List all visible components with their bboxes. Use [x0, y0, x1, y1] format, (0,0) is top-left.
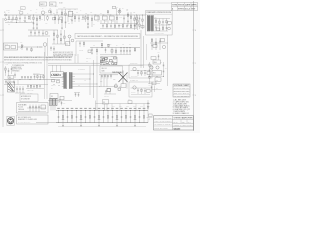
drops into U3 — [53, 65, 61, 72]
ps below box d1 — [153, 45, 157, 48]
wire y74 center — [99, 74, 118, 76]
cm cap a — [91, 48, 93, 55]
wire above ladder y103 — [96, 104, 151, 111]
ladder noise labels — [112, 105, 150, 107]
capacitor C3 — [50, 8, 52, 15]
ps chain c — [162, 19, 164, 32]
ps below box d2 — [161, 39, 165, 42]
title block — [154, 116, 194, 131]
revision table — [155, 3, 198, 11]
bus vertical x143 — [143, 36, 145, 68]
wire bus y79 — [4, 79, 60, 81]
zone tick left B — [2, 29, 4, 31]
rm transistor Q27 — [156, 66, 159, 69]
rm chain right — [163, 62, 165, 76]
svg-text:2.2K: 2.2K — [63, 7, 66, 9]
svg-text:POWER SUPPLY / PROTECTOR PC-22: POWER SUPPLY / PROTECTOR PC-2216 — [147, 12, 172, 14]
power entry box — [4, 43, 18, 50]
riser box mid — [103, 100, 109, 105]
wire secondary y22 — [5, 22, 34, 24]
resistor R10 chain — [61, 9, 63, 29]
svg-text:R102: R102 — [112, 105, 115, 107]
cap row t1 — [15, 86, 25, 93]
small box lower left — [50, 94, 58, 99]
resistor R4 — [28, 15, 30, 20]
svg-text:220K: 220K — [55, 6, 58, 8]
svg-text:R28: R28 — [126, 9, 128, 11]
ps below wire y42 — [150, 42, 168, 44]
wire y36 left — [28, 35, 50, 37]
res r70 — [60, 96, 64, 99]
connector CN3 dark — [50, 99, 61, 106]
resistor R9 — [58, 15, 60, 24]
second tier parts right — [100, 20, 136, 29]
svg-text:S3: S3 — [51, 96, 53, 98]
chain x61 — [60, 30, 62, 44]
ps below box chain c — [159, 38, 161, 50]
resistor chain R19 — [137, 15, 139, 30]
svg-text:W/ VTVM 20K OHM/V: W/ VTVM 20K OHM/V — [18, 122, 31, 124]
sheet border left — [2, 18, 4, 127]
wire y47 center — [90, 47, 140, 49]
svg-text:0.047: 0.047 — [119, 17, 122, 19]
tl extra noise — [5, 17, 33, 24]
ll parts col a — [5, 66, 7, 76]
svg-text:SIZE: SIZE — [182, 121, 185, 123]
label box TB1 — [8, 76, 14, 79]
rm box relay — [152, 71, 162, 76]
res r25 — [31, 47, 33, 52]
ps box lower — [157, 28, 160, 31]
notes heading line — [4, 56, 72, 59]
zone tick left D — [2, 94, 4, 96]
right riser parts — [147, 103, 149, 108]
chain x64 — [64, 30, 66, 44]
svg-text:C60 10/50 D12 R82: C60 10/50 D12 R82 — [155, 33, 165, 35]
cluster R16 R17 — [126, 10, 132, 26]
resistor R5 chain — [33, 15, 35, 30]
schematic box 1 — [17, 103, 49, 114]
svg-text:TP5 -24V TP6 0V: TP5 -24V TP6 0V — [174, 93, 190, 95]
resistor R1 — [8, 15, 10, 23]
rm upper parts — [151, 52, 160, 60]
svg-text:→2: →2 — [148, 119, 150, 121]
cap c25 — [26, 47, 28, 51]
svg-text:C90: C90 — [63, 103, 66, 105]
relay K1 box — [95, 14, 100, 20]
connector P2 dark bars — [147, 16, 153, 32]
IC designator box U3 — [51, 72, 64, 77]
input jack J1 — [4, 12, 7, 16]
wire y86 center — [99, 86, 118, 88]
transformer T1 — [8, 80, 15, 92]
resistor R11 chain — [65, 9, 67, 28]
svg-text:U1: U1 — [69, 10, 71, 12]
ladder ground rail faint — [58, 125, 146, 127]
svg-text:TP1: TP1 — [8, 24, 10, 26]
connector CN2 dark — [69, 73, 72, 89]
svg-text:R55 C47: R55 C47 — [51, 85, 56, 87]
caps above bus — [21, 76, 32, 80]
cm caps row — [120, 47, 131, 54]
wire secondary y23 right — [100, 23, 138, 25]
svg-text:C: C — [1, 62, 2, 64]
svg-text:RY1: RY1 — [97, 21, 100, 23]
resistor R13 — [78, 15, 80, 22]
relay K3 box — [110, 14, 115, 20]
riser x107 — [106, 104, 108, 111]
box center right — [121, 84, 126, 88]
amp text noise — [52, 69, 86, 87]
svg-text:DWG 204-1187: DWG 204-1187 — [155, 128, 168, 130]
rm chain left — [149, 62, 151, 84]
svg-text:TP: TP — [21, 8, 23, 10]
svg-text:D15: D15 — [156, 79, 159, 81]
vert x97 — [96, 56, 98, 111]
zone tick right C — [193, 62, 195, 64]
cm res c — [101, 43, 103, 48]
resistor R8 — [54, 15, 56, 24]
svg-text:C23: C23 — [133, 12, 135, 14]
drop wires to amp — [75, 54, 91, 63]
capacitor C4 — [82, 15, 84, 20]
ladder top bus — [56, 110, 148, 112]
vert x90 — [89, 66, 91, 95]
tb extra parts — [31, 6, 82, 20]
pre-box chains left — [136, 15, 144, 29]
resistor R6 chain — [36, 15, 38, 29]
svg-text:R132: R132 — [133, 105, 136, 107]
ps wire y31 — [154, 30, 168, 32]
zone tick right B — [193, 29, 195, 31]
transistor Q6 — [43, 43, 47, 56]
svg-text:Q22: Q22 — [113, 79, 116, 81]
ladder right riser — [147, 100, 149, 123]
svg-text:REVISION: REVISION — [178, 5, 184, 7]
ll parts col b — [8, 68, 10, 76]
ll col extra — [5, 63, 12, 75]
svg-text:R91 C71 D14: R91 C71 D14 — [131, 76, 138, 78]
svg-text:1K: 1K — [23, 20, 25, 22]
svg-text:100K: 100K — [49, 9, 52, 11]
wire x47 down2 — [46, 57, 48, 99]
wire x44 down — [44, 52, 46, 99]
input jack J2 — [5, 19, 17, 21]
svg-text:1.5K: 1.5K — [45, 23, 48, 25]
svg-text:R152: R152 — [147, 105, 150, 107]
wire upper y9 — [58, 8, 78, 10]
svg-text:B: B — [1, 30, 2, 32]
ps chain a — [155, 19, 157, 32]
dark part center — [107, 89, 111, 92]
svg-text:12P: 12P — [58, 102, 60, 104]
cap bank c21 — [30, 30, 32, 36]
junction dots y47 — [36, 46, 39, 49]
cap bank c24 — [42, 30, 44, 36]
subcircuit box power supply — [146, 11, 173, 36]
wire y47 left — [18, 46, 43, 48]
pin stubs right — [72, 74, 75, 87]
resistor R14 chain — [87, 15, 89, 29]
svg-text:Q21: Q21 — [100, 81, 103, 83]
svg-text:10-2: 10-2 — [185, 9, 190, 11]
parts note list — [173, 99, 190, 115]
cm res g — [115, 48, 117, 55]
wire x47 down — [47, 38, 49, 56]
info box left — [20, 94, 38, 102]
cluster Q2 Q3 — [116, 7, 125, 25]
cap c90 — [61, 101, 66, 106]
svg-text:MUTING CKT: MUTING CKT — [130, 63, 138, 65]
small parts left of chart — [151, 82, 162, 92]
ps below transistor — [162, 45, 165, 48]
bus vertical x146 — [146, 44, 148, 60]
svg-text:IC2 NJM4558: IC2 NJM4558 — [52, 73, 59, 75]
box small x66 — [66, 42, 70, 46]
ps chain b — [159, 19, 161, 32]
ps chain d — [166, 19, 168, 32]
label box FIG2 — [50, 2, 57, 6]
notes box right — [173, 84, 190, 98]
svg-text:R50 4.7K: R50 4.7K — [86, 58, 91, 60]
cap bank c23 — [38, 30, 40, 36]
wire y54 center — [100, 54, 131, 56]
rm labels — [149, 62, 168, 87]
ps wire y25 — [154, 24, 170, 26]
riser x95 — [95, 101, 97, 111]
svg-text:B: B — [195, 30, 196, 32]
header box center — [100, 66, 123, 74]
ladder bottom bus — [56, 122, 148, 124]
svg-text:F1 F2: F1 F2 — [5, 44, 8, 46]
extra verticals left band — [12, 15, 98, 24]
svg-text:C1 10u: C1 10u — [6, 10, 10, 12]
svg-text:R48 220: R48 220 — [79, 50, 84, 52]
sub parts y41 — [79, 41, 95, 53]
svg-text:OUTPUT 8 OHM: OUTPUT 8 OHM — [12, 69, 22, 71]
center bottom wire — [104, 93, 116, 95]
svg-text:D: D — [195, 95, 196, 97]
dense cluster parts — [100, 56, 117, 66]
svg-text:WT: WT — [191, 9, 195, 11]
wire y100 — [48, 100, 72, 102]
IC U1 box — [69, 10, 73, 17]
page connector marks — [147, 114, 153, 121]
vert x93 — [93, 60, 95, 98]
ll cluster2 — [26, 85, 44, 95]
svg-text:C: C — [195, 63, 196, 65]
ps below box chain b — [155, 38, 157, 50]
svg-text:TP1 24.5V TP2 0.6V: TP1 24.5V TP2 0.6V — [174, 88, 190, 90]
svg-text:INPUT: INPUT — [40, 4, 44, 6]
pin wires to right — [75, 74, 100, 87]
capacitor C1 — [12, 15, 14, 21]
svg-text:REV PER ECN: REV PER ECN — [178, 9, 184, 11]
svg-text:SA-5200: SA-5200 — [174, 128, 181, 131]
cap c51 — [14, 73, 16, 79]
svg-text:R60 C43: R60 C43 — [102, 68, 107, 70]
svg-text:RY3: RY3 — [112, 21, 115, 23]
relay K2 box — [103, 14, 108, 20]
wire x76 down — [75, 41, 77, 56]
wire bus y84 — [4, 84, 48, 86]
svg-text:DRIVER BD: DRIVER BD — [112, 72, 123, 74]
bus vertical x141 — [140, 30, 142, 68]
resistor R2 — [16, 15, 18, 23]
muting box A — [129, 63, 152, 78]
svg-text:RY4: RY4 — [153, 73, 156, 75]
chain x54 — [53, 30, 55, 44]
connector CN1 dark — [64, 73, 67, 89]
svg-text:TO TONE BD: TO TONE BD — [78, 69, 85, 71]
labels above center wire — [101, 44, 131, 47]
svg-text:22K: 22K — [53, 13, 55, 15]
svg-text:REG: REG — [154, 62, 157, 64]
bus drops left — [5, 80, 18, 85]
wire main bus y15 — [5, 14, 146, 16]
svg-text:TB1: TB1 — [9, 77, 12, 79]
cn3 wires down — [51, 106, 55, 111]
amp small parts lower — [74, 93, 80, 98]
capacitor C2 — [24, 15, 26, 22]
svg-text:C8 47: C8 47 — [40, 19, 43, 21]
svg-text:SH 1: SH 1 — [188, 121, 191, 123]
resistor R7 — [47, 15, 49, 21]
ladder labels below — [62, 118, 136, 121]
svg-text:W/ CORD SET: W/ CORD SET — [21, 98, 30, 100]
wire y41 sub — [76, 40, 103, 42]
rm wire y83 — [148, 83, 160, 85]
label box small TP — [21, 7, 26, 10]
label noise top band — [6, 7, 135, 30]
svg-text:WAVEFORMS TAKEN WITH 1KHZ SINE: WAVEFORMS TAKEN WITH 1KHZ SINE 100MV AT … — [4, 59, 72, 62]
resistor R12 — [74, 15, 76, 22]
svg-text:R2 47K: R2 47K — [11, 19, 15, 21]
small caps mid — [50, 46, 55, 51]
riser x104 — [104, 104, 106, 111]
zone tick right D — [193, 94, 195, 96]
svg-text:RY2: RY2 — [105, 21, 108, 23]
rm box lower — [155, 78, 161, 82]
label box FIG1 — [40, 2, 47, 6]
svg-text:33K: 33K — [68, 23, 70, 25]
svg-text:C18: C18 — [90, 12, 92, 14]
svg-text:CN3: CN3 — [58, 100, 61, 102]
svg-text:R112: R112 — [119, 105, 122, 107]
transistor Q5 — [45, 32, 48, 35]
wire pair top a — [48, 62, 100, 64]
svg-text:PC-2214: PC-2214 — [18, 107, 23, 109]
resistor R15 chain — [91, 15, 93, 27]
svg-text:D: D — [1, 95, 2, 97]
resistor chain R18 — [134, 15, 136, 30]
potentiometer VR1 — [20, 42, 24, 50]
center small parts right — [115, 84, 121, 91]
wire y30 left — [28, 29, 58, 31]
cap bank c22 — [34, 30, 36, 36]
cm box f — [111, 48, 113, 55]
logo emblem — [7, 116, 14, 125]
ps noise text — [155, 17, 165, 35]
cm res b — [96, 48, 98, 56]
svg-text:R61 R62 C44: R61 R62 C44 — [100, 58, 108, 60]
wire pair top b — [48, 64, 143, 66]
ground symbols ladder — [62, 123, 136, 127]
wire y44 mid — [52, 43, 68, 45]
cm res e — [108, 44, 110, 48]
svg-text:C31 C32 R41: C31 C32 R41 — [33, 73, 40, 75]
svg-text:R122: R122 — [126, 105, 129, 107]
cm cap d — [105, 48, 107, 54]
svg-text:C27: C27 — [130, 27, 132, 29]
svg-text:R12: R12 — [56, 12, 58, 14]
wire net vertical x167 — [167, 35, 169, 86]
rm transistor Q26 — [150, 66, 153, 69]
ps below box chain a — [151, 38, 153, 50]
junction dots bus — [94, 14, 97, 17]
parts cluster mid — [33, 73, 44, 80]
transistor Q1 — [41, 11, 47, 15]
zone tick left C — [2, 61, 4, 63]
text block mid — [53, 51, 74, 58]
inline box on wire y103 — [128, 99, 132, 104]
note box long — [75, 34, 140, 39]
chain x57 — [57, 30, 59, 44]
dense cluster text — [100, 58, 108, 66]
ps transistor — [168, 27, 171, 30]
svg-text:TP3 12.5V TP4 1.2V: TP3 12.5V TP4 1.2V — [174, 90, 190, 92]
svg-text:R63 470: R63 470 — [100, 64, 105, 66]
headphone box B — [129, 79, 152, 97]
ladder rungs — [57, 108, 145, 123]
center bottom parts — [104, 90, 110, 98]
mid transistors — [68, 35, 74, 44]
sheet border right — [193, 1, 195, 131]
rm label box — [153, 60, 161, 64]
resistor R3 — [20, 10, 23, 15]
drops to lower wire — [101, 75, 107, 87]
schematic box 2 — [17, 115, 57, 124]
svg-text:R142: R142 — [140, 105, 143, 107]
note text block left — [12, 64, 24, 72]
svg-text:PRE: PRE — [50, 4, 53, 6]
notes line 2 — [4, 59, 72, 62]
cm res h — [134, 48, 136, 53]
svg-text:4.7K: 4.7K — [72, 13, 75, 15]
crossing wires X — [119, 71, 128, 85]
svg-text:VR1: VR1 — [20, 42, 23, 44]
svg-text:C81 R71 R72 C82 D21: C81 R71 R72 C82 D21 — [18, 111, 30, 113]
svg-text:C35 R47 D5: C35 R47 D5 — [27, 90, 34, 92]
svg-text:R67 C52: R67 C52 — [104, 96, 109, 98]
caps row center — [101, 74, 112, 78]
rm wire y76 — [148, 76, 164, 78]
vert x127 — [126, 75, 128, 89]
rm dots — [148, 75, 151, 78]
svg-text:C74 R95: C74 R95 — [131, 92, 136, 94]
pin stubs left — [62, 74, 64, 87]
ps wire y18 — [154, 18, 170, 20]
svg-text:S1 S2: S1 S2 — [59, 3, 63, 5]
above wire parts center — [107, 6, 124, 15]
ps diode box — [168, 22, 171, 25]
bus dots — [9, 78, 12, 81]
parts below U3 — [51, 80, 60, 90]
